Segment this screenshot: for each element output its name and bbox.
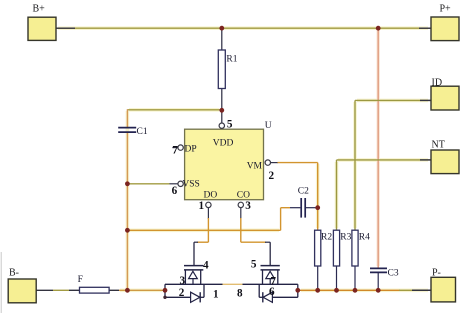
svg-text:C3: C3 [388,268,399,278]
svg-text:VSS: VSS [182,180,199,190]
svg-text:C1: C1 [137,127,148,137]
svg-text:1: 1 [213,289,219,301]
svg-text:VDD: VDD [213,139,234,149]
svg-text:R2: R2 [321,233,332,243]
svg-text:7: 7 [172,145,178,157]
svg-text:R4: R4 [359,233,370,243]
svg-text:5: 5 [251,258,257,270]
svg-text:P+: P+ [440,4,452,15]
svg-text:1: 1 [199,200,205,212]
svg-text:5: 5 [227,118,233,130]
svg-text:B-: B- [9,268,19,279]
svg-text:NT: NT [432,140,445,151]
svg-text:6: 6 [172,185,178,197]
svg-text:B+: B+ [33,4,46,15]
svg-text:8: 8 [237,287,243,299]
svg-text:C2: C2 [298,187,309,197]
svg-text:6: 6 [269,286,275,298]
svg-text:3: 3 [180,275,186,287]
svg-text:4: 4 [203,259,209,271]
svg-text:DP: DP [185,144,197,154]
svg-text:P-: P- [432,268,441,279]
svg-text:DO: DO [204,191,218,201]
svg-text:ID: ID [432,77,443,88]
svg-text:2: 2 [179,287,185,299]
svg-text:VM: VM [247,161,263,171]
svg-text:3: 3 [245,200,251,212]
svg-text:F: F [78,275,83,285]
svg-text:U: U [265,121,272,131]
svg-text:2: 2 [269,170,275,182]
svg-text:R3: R3 [340,233,351,243]
svg-text:R1: R1 [226,55,237,65]
